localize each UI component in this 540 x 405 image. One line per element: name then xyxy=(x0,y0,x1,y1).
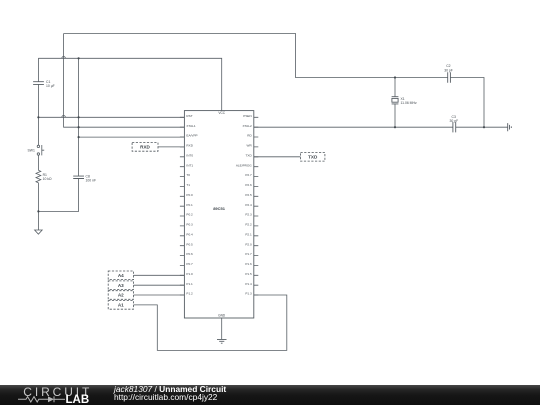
flag A2 xyxy=(108,291,133,300)
svg-text:P0.4: P0.4 xyxy=(186,232,193,236)
svg-text:P1.0: P1.0 xyxy=(186,272,193,276)
svg-text:VCC: VCC xyxy=(218,111,225,115)
switch SW1 xyxy=(37,145,44,155)
svg-text:P1.4: P1.4 xyxy=(245,282,252,286)
footer bar xyxy=(0,385,540,405)
hop RST over x=63.6 xyxy=(62,115,66,117)
junction node RST at C1/SW1 xyxy=(37,116,39,118)
svg-text:LAB: LAB xyxy=(66,394,90,405)
wire TXD net xyxy=(254,156,301,158)
wire RST net xyxy=(38,116,184,118)
wire C8 vertical xyxy=(38,58,78,211)
IC U1 89C51 (8051 MCU) body xyxy=(184,111,253,318)
wire IC GND stem xyxy=(221,318,223,339)
svg-text:RXD: RXD xyxy=(140,145,150,150)
junction crystal bottom xyxy=(394,126,396,128)
svg-text:P1.2: P1.2 xyxy=(186,292,193,296)
capacitor C1 xyxy=(33,82,44,85)
svg-text:RD: RD xyxy=(247,134,252,138)
svg-text:RST: RST xyxy=(186,114,192,118)
svg-text:P1.3: P1.3 xyxy=(245,292,252,296)
svg-text:P2.6: P2.6 xyxy=(245,183,252,187)
ground (right, rotated, XTAL2 net) xyxy=(508,123,512,131)
svg-text:XTAL2: XTAL2 xyxy=(242,124,252,128)
resistor R1 xyxy=(36,170,41,183)
svg-text:TXD: TXD xyxy=(308,155,318,160)
ground (earth, under IC GND pin) xyxy=(217,339,227,343)
svg-text:P2.3: P2.3 xyxy=(245,213,252,217)
svg-text:P0.0: P0.0 xyxy=(186,193,193,197)
capacitor C2 xyxy=(448,72,451,82)
hop VCC rail over x=63.6 xyxy=(62,57,66,59)
svg-text:P2.1: P2.1 xyxy=(245,232,252,236)
svg-text:10 µF: 10 µF xyxy=(46,84,55,88)
IC pin stubs and labels xyxy=(180,117,258,295)
svg-text:INT1: INT1 xyxy=(186,163,193,167)
CircuitLab logo xyxy=(16,385,116,405)
svg-text:GND: GND xyxy=(218,314,226,318)
svg-text:A2: A2 xyxy=(118,293,124,298)
flag A3 xyxy=(108,281,133,290)
svg-text:T1: T1 xyxy=(186,183,190,187)
svg-text:WR: WR xyxy=(247,144,253,148)
svg-text:P1.6: P1.6 xyxy=(245,262,252,266)
svg-text:P0.2: P0.2 xyxy=(186,213,193,217)
ground (signal, below R1) xyxy=(35,230,43,234)
svg-text:INT0: INT0 xyxy=(186,153,193,157)
svg-text:A3: A3 xyxy=(118,283,124,288)
wire C1/SW1/R1 vertical xyxy=(37,58,39,230)
svg-text:P0.1: P0.1 xyxy=(186,203,193,207)
flag A4 xyxy=(108,271,133,280)
junction R1 / C8 at ground xyxy=(37,210,39,212)
capacitor C3 xyxy=(453,122,456,132)
svg-text:30 pF: 30 pF xyxy=(450,119,459,123)
svg-text:89C51: 89C51 xyxy=(213,206,226,211)
wire XTAL1 net xyxy=(64,34,185,128)
svg-text:PSEN: PSEN xyxy=(243,114,251,118)
wire EA net xyxy=(79,136,185,138)
svg-text:P2.7: P2.7 xyxy=(245,173,252,177)
svg-text:P1.1: P1.1 xyxy=(186,282,193,286)
wire A1 to P1.3 xyxy=(134,295,287,350)
svg-text:P2.4: P2.4 xyxy=(245,203,252,207)
wire A3 to P1.1 xyxy=(134,284,185,286)
svg-text:A4: A4 xyxy=(118,273,124,278)
svg-text:P0.3: P0.3 xyxy=(186,223,193,227)
wire XTAL2 net xyxy=(254,126,508,128)
svg-text:A1: A1 xyxy=(118,303,124,308)
junction VCC rail / C8 branch xyxy=(78,57,80,59)
svg-text:P2.0: P2.0 xyxy=(245,242,252,246)
junction EA / C8 branch xyxy=(78,136,80,138)
junction C2/C3/ground node xyxy=(483,126,485,128)
svg-text:SW1: SW1 xyxy=(28,148,35,152)
svg-text:P2.2: P2.2 xyxy=(245,223,252,227)
wire crystal branch xyxy=(394,78,396,128)
svg-text:T0: T0 xyxy=(186,173,190,177)
svg-text:P1.7: P1.7 xyxy=(245,252,252,256)
flag A1 xyxy=(108,301,133,310)
svg-text:P0.6: P0.6 xyxy=(186,252,193,256)
junction XTAL1 / C8 branch xyxy=(78,126,80,128)
svg-text:100 nF: 100 nF xyxy=(86,178,97,182)
svg-text:10 kΩ: 10 kΩ xyxy=(43,177,52,181)
svg-text:P1.5: P1.5 xyxy=(245,272,252,276)
crystal X1 xyxy=(392,97,399,104)
svg-text:RXD: RXD xyxy=(186,144,193,148)
flag TXD xyxy=(301,153,325,162)
wire RXD net xyxy=(158,146,184,148)
svg-text:EA/VPP: EA/VPP xyxy=(186,134,197,138)
svg-text:11.06 MHz: 11.06 MHz xyxy=(401,101,417,105)
wire A4 to P1.0 xyxy=(134,274,185,276)
wire VCC top loop xyxy=(64,34,484,128)
svg-text:P0.5: P0.5 xyxy=(186,242,193,246)
junction RST / C8 branch xyxy=(78,116,80,118)
svg-text:TXD: TXD xyxy=(246,153,253,157)
flag RXD xyxy=(132,143,158,152)
svg-text:P2.5: P2.5 xyxy=(245,193,252,197)
svg-text:P0.7: P0.7 xyxy=(186,262,193,266)
junction crystal top xyxy=(394,76,396,78)
svg-text:ALE/PROG: ALE/PROG xyxy=(236,163,252,167)
svg-text:XTAL1: XTAL1 xyxy=(186,124,196,128)
capacitor C8 xyxy=(73,176,84,178)
wire VCC rail to IC xyxy=(38,58,221,110)
wire A2 to P1.2 xyxy=(134,294,185,296)
svg-text:30 pF: 30 pF xyxy=(444,68,453,72)
